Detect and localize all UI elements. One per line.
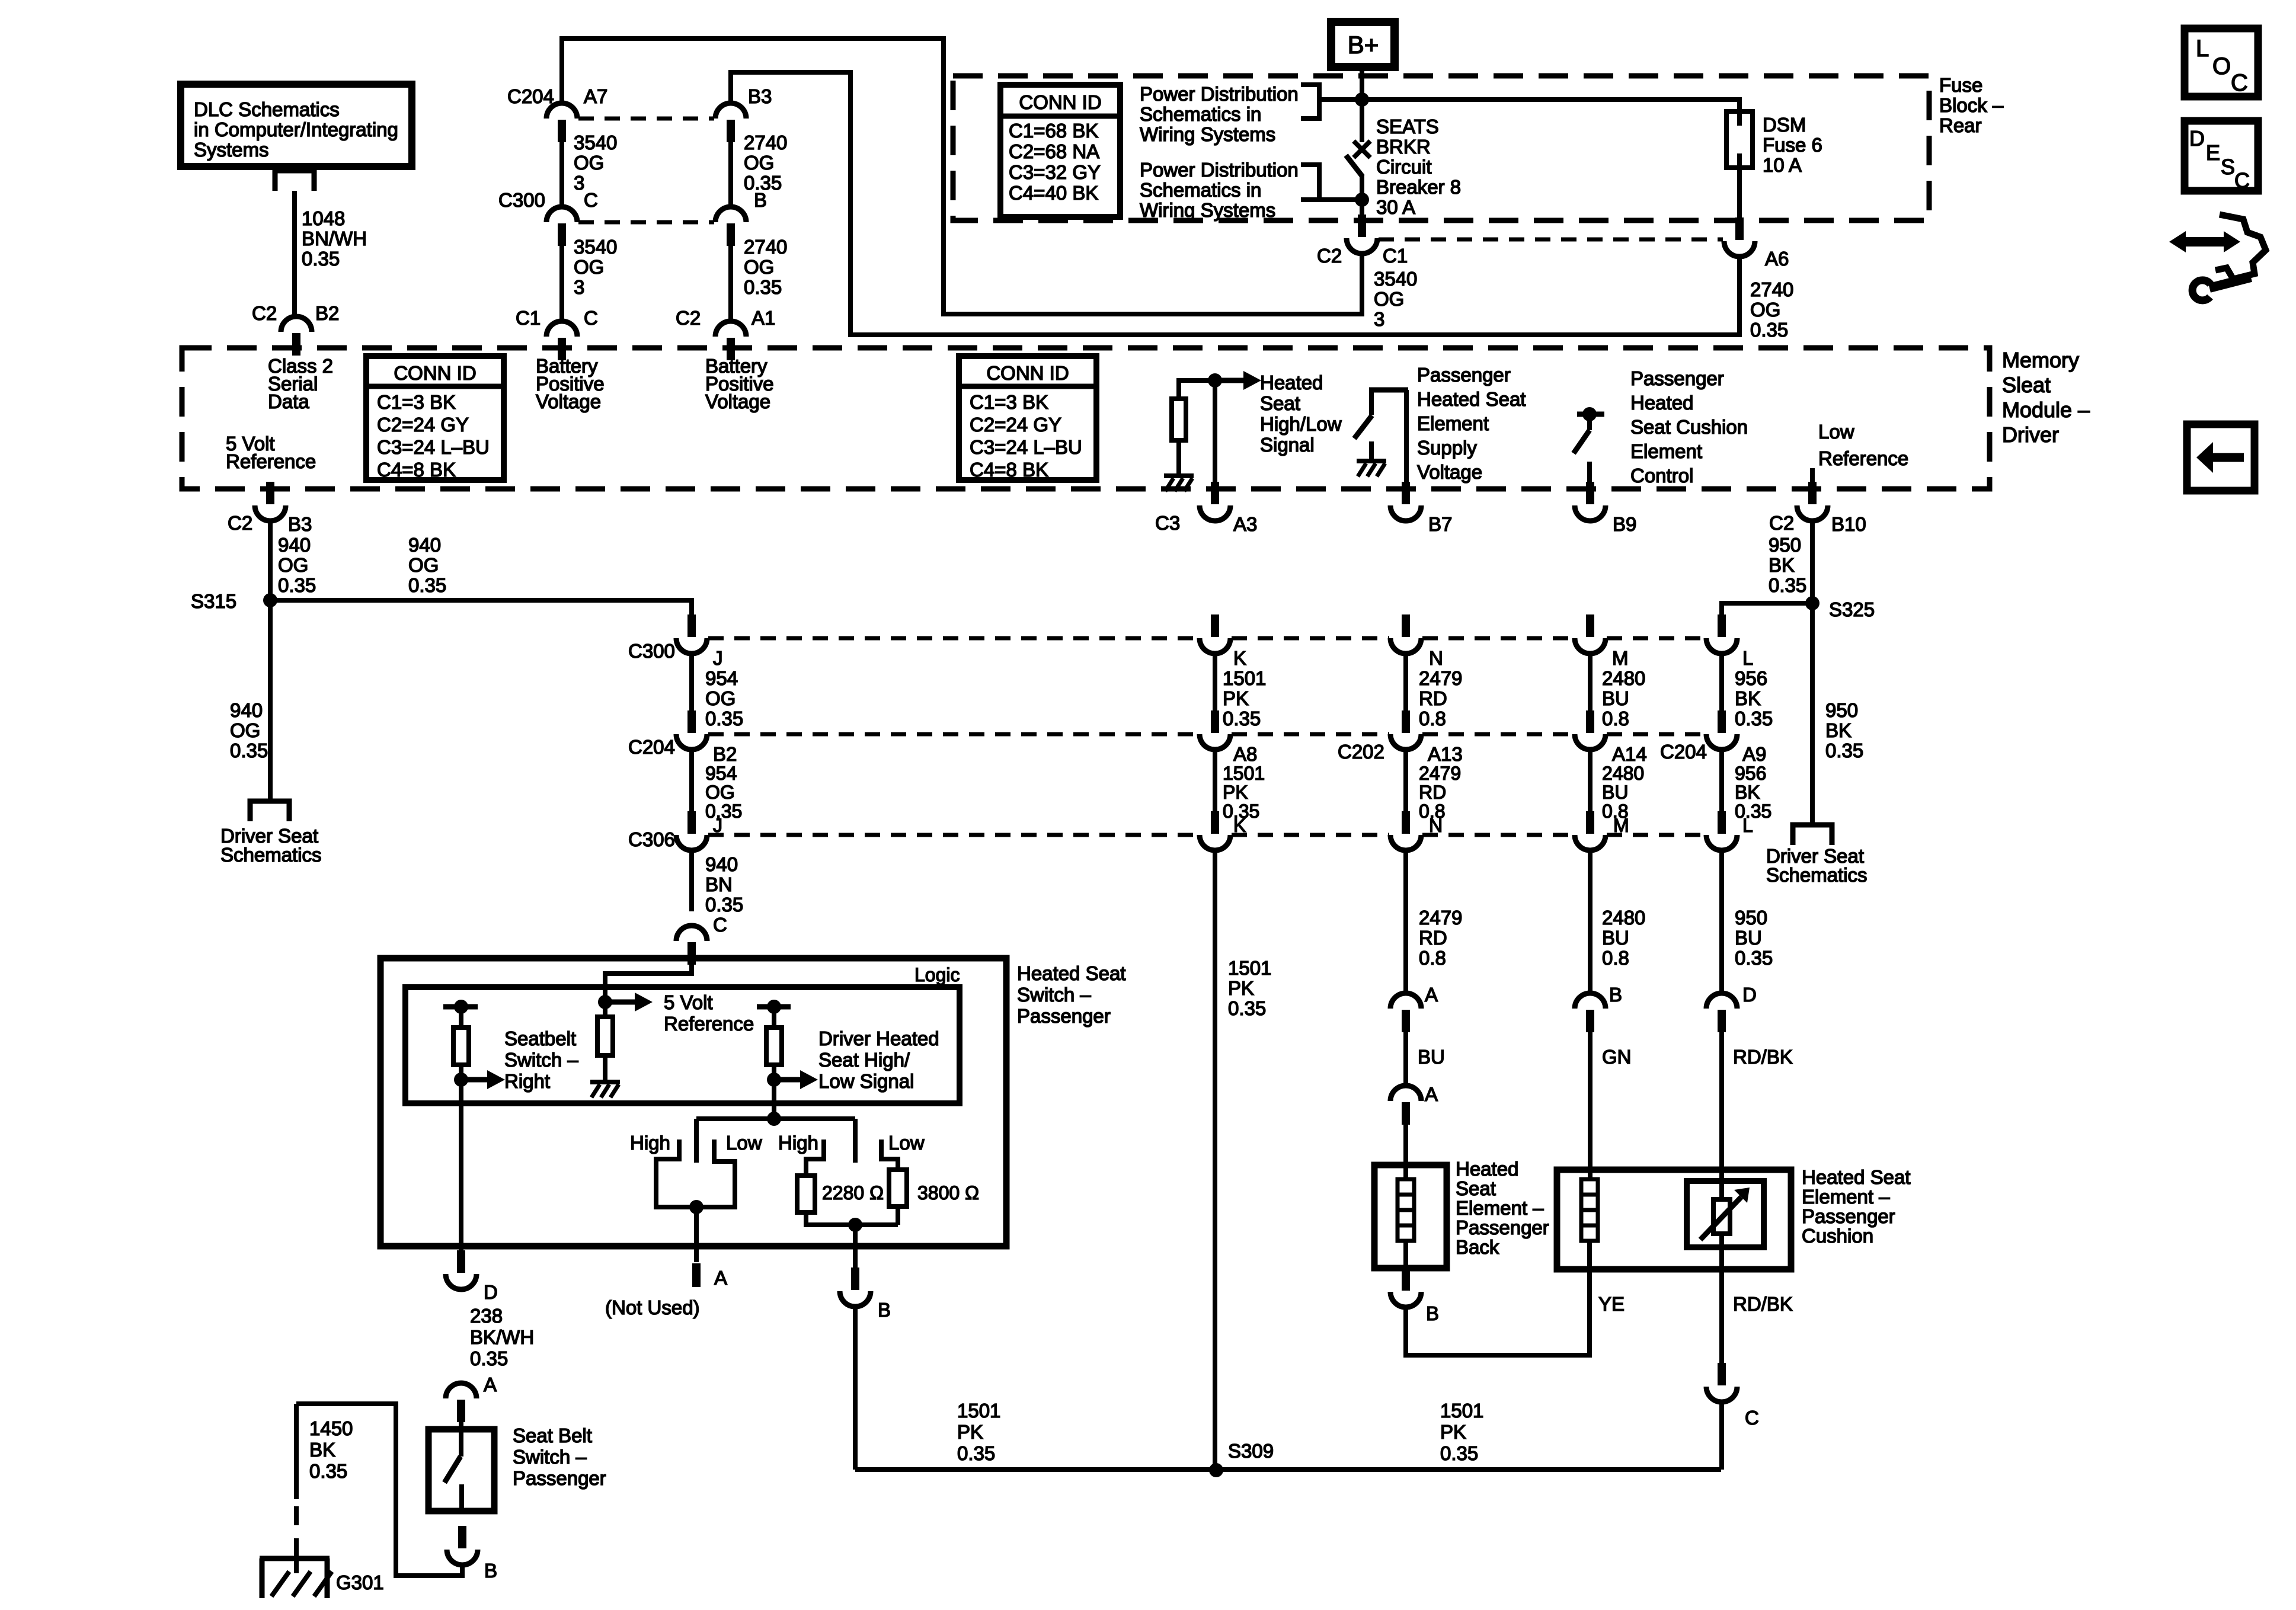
- svg-text:Heated Seat: Heated Seat: [1017, 962, 1125, 984]
- svg-text:Seat Cushion: Seat Cushion: [1630, 416, 1748, 438]
- wire B7 switch to ground: [1369, 441, 1374, 460]
- svg-text:950: 950: [1735, 907, 1767, 929]
- svg-text:2740: 2740: [1750, 279, 1793, 300]
- svg-text:Passenger: Passenger: [1630, 367, 1724, 389]
- dashed tie C300 row: [578, 220, 714, 225]
- svg-text:C3=32 GY: C3=32 GY: [1009, 161, 1101, 183]
- connector A (element): [1390, 1086, 1421, 1101]
- svg-text:Element: Element: [1417, 412, 1489, 434]
- resistor 2280: [797, 1176, 815, 1212]
- node dot driver signal: [767, 1073, 781, 1087]
- svg-text:C3=24 L–BU: C3=24 L–BU: [377, 436, 490, 458]
- wire driver res top: [772, 1007, 776, 1028]
- svg-text:0.35: 0.35: [1735, 947, 1773, 969]
- svg-text:Passenger: Passenger: [513, 1467, 606, 1489]
- svg-text:Back: Back: [1456, 1236, 1499, 1258]
- node dot pair2 out: [848, 1218, 862, 1232]
- connector D (950): [1706, 993, 1737, 1009]
- svg-text:C1=3 BK: C1=3 BK: [970, 391, 1048, 413]
- svg-text:Power Distribution: Power Distribution: [1140, 83, 1299, 105]
- svg-text:OG: OG: [1374, 288, 1404, 310]
- DSM fuse symbol: [1726, 111, 1753, 168]
- svg-text:B9: B9: [1613, 513, 1636, 535]
- svg-text:High: High: [778, 1132, 818, 1154]
- DLC Schematics box: [181, 84, 412, 167]
- node dot B9 internal: [1582, 407, 1597, 421]
- svg-text:1501: 1501: [1223, 667, 1266, 689]
- svg-text:C202: C202: [1338, 741, 1384, 763]
- svg-text:Switch –: Switch –: [1017, 984, 1091, 1006]
- wire 954 OG seg: [689, 654, 694, 710]
- svg-text:C3=24 L–BU: C3=24 L–BU: [970, 436, 1082, 458]
- svg-text:S309: S309: [1228, 1440, 1274, 1462]
- wire 2480 BU seg3: [1588, 850, 1593, 993]
- svg-text:BU: BU: [1602, 687, 1629, 709]
- svg-text:0.8: 0.8: [1602, 708, 1629, 729]
- wire 1501 PK seg2: [1213, 750, 1217, 811]
- svg-text:Passenger: Passenger: [1802, 1205, 1895, 1227]
- svg-text:Reference: Reference: [226, 450, 316, 472]
- junction dot breaker out: [1355, 193, 1369, 207]
- wire C to splice run: [1719, 1402, 1724, 1470]
- svg-text:A6: A6: [1765, 248, 1789, 270]
- wire 2479 RD seg2: [1403, 750, 1408, 811]
- wire seatbelt resistor down: [459, 1065, 463, 1251]
- svg-text:BK: BK: [1735, 687, 1761, 709]
- arrow Heated Seat High/Low Signal: [1220, 378, 1243, 383]
- wire breaker to C2/C1: [1360, 175, 1364, 215]
- service icon wrench: [2209, 277, 2251, 288]
- connector B (2480): [1575, 993, 1606, 1009]
- svg-text:Heated: Heated: [1630, 392, 1693, 414]
- svg-text:2480: 2480: [1602, 763, 1644, 784]
- svg-text:0.35: 0.35: [302, 248, 340, 270]
- svg-text:10 A: 10 A: [1763, 154, 1802, 176]
- svg-text:BRKR: BRKR: [1376, 136, 1431, 158]
- svg-text:C: C: [2234, 168, 2250, 193]
- connector B3 (C204 mate): [715, 103, 746, 119]
- connector C2/C1 below fuse block: [1358, 215, 1366, 237]
- wire thermistor down: [1719, 1234, 1724, 1363]
- circuit breaker X: [1354, 141, 1370, 158]
- connector C300/J: [687, 614, 696, 637]
- svg-text:Low: Low: [1818, 421, 1854, 443]
- wire 1450 BK lower: [294, 1538, 299, 1558]
- dashed row C300: [708, 636, 1705, 641]
- svg-text:Breaker 8: Breaker 8: [1376, 176, 1461, 198]
- svg-text:OG: OG: [744, 152, 774, 174]
- svg-text:BK: BK: [1769, 554, 1795, 576]
- svg-text:RD: RD: [1419, 927, 1447, 949]
- connector A14 (C204 row): [1586, 710, 1594, 733]
- svg-text:Seatbelt: Seatbelt: [504, 1028, 576, 1049]
- svg-text:Block –: Block –: [1939, 94, 2004, 116]
- svg-text:0.35: 0.35: [470, 1347, 508, 1369]
- stub A not used: [692, 1263, 701, 1287]
- element bars (cushion): [1581, 1179, 1598, 1241]
- svg-text:YE: YE: [1598, 1293, 1625, 1315]
- svg-text:Rear: Rear: [1939, 114, 1982, 136]
- svg-text:A14: A14: [1612, 743, 1647, 765]
- svg-text:A3: A3: [1233, 513, 1257, 535]
- svg-text:CONN ID: CONN ID: [986, 362, 1069, 384]
- svg-text:940: 940: [278, 534, 311, 556]
- wiper 2: [853, 1119, 858, 1163]
- svg-text:2740: 2740: [744, 132, 787, 153]
- svg-text:2479: 2479: [1419, 907, 1462, 929]
- Logic inner box: [405, 987, 960, 1103]
- svg-text:D: D: [484, 1281, 498, 1303]
- connector C300/C: [546, 207, 577, 222]
- svg-text:Data: Data: [268, 391, 309, 412]
- svg-text:C1=3 BK: C1=3 BK: [377, 391, 456, 413]
- dashed row C204/C202: [708, 732, 1705, 737]
- connector A (seat belt): [446, 1383, 477, 1398]
- svg-text:C306: C306: [628, 828, 675, 850]
- svg-text:Voltage: Voltage: [1417, 461, 1482, 483]
- selector pair 1 contacts: [656, 1140, 735, 1207]
- connector M (C300 row): [1586, 614, 1594, 637]
- wire RD/BK into thermistor: [1719, 1031, 1724, 1199]
- svg-text:Fuse 6: Fuse 6: [1763, 134, 1822, 156]
- connector B9: [1586, 482, 1594, 504]
- off-page symbol (driver seat right): [1793, 825, 1832, 845]
- svg-text:Seat High/: Seat High/: [818, 1049, 910, 1071]
- svg-text:Seat: Seat: [1456, 1177, 1496, 1199]
- dashed tie C1-A6 row: [1379, 238, 1723, 242]
- svg-text:3: 3: [574, 276, 584, 298]
- LOC icon box: [2185, 28, 2258, 97]
- wire pair1 out to A: [694, 1207, 699, 1262]
- svg-text:Cushion: Cushion: [1802, 1225, 1873, 1247]
- svg-text:0.35: 0.35: [408, 574, 446, 596]
- svg-text:B: B: [878, 1299, 891, 1321]
- thermistor element: [1713, 1199, 1730, 1234]
- svg-text:B2: B2: [315, 302, 339, 324]
- switch B9 stem: [1587, 414, 1592, 430]
- service icon outline: [2215, 215, 2266, 279]
- svg-text:Module –: Module –: [2002, 398, 2090, 422]
- switch B7 fixed contact: [1369, 390, 1374, 415]
- svg-text:B3: B3: [748, 85, 772, 107]
- connector B7: [1402, 482, 1410, 504]
- CONN ID table (fuse block): [1000, 85, 1120, 217]
- svg-text:C1: C1: [1383, 245, 1408, 267]
- svg-text:0.8: 0.8: [1419, 708, 1446, 729]
- svg-text:High: High: [630, 1132, 670, 1154]
- svg-text:B7: B7: [1428, 513, 1452, 535]
- svg-text:Switch –: Switch –: [504, 1049, 578, 1071]
- svg-text:Element –: Element –: [1802, 1186, 1890, 1208]
- node dot A3 internal: [1208, 373, 1222, 388]
- junction dot B+ branch: [1355, 92, 1369, 107]
- wire into element box A: [1403, 1124, 1408, 1179]
- svg-text:RD: RD: [1419, 687, 1447, 709]
- svg-text:BN: BN: [705, 873, 733, 895]
- Memory Seat Module dashed box: [182, 348, 1990, 489]
- svg-text:RD/BK: RD/BK: [1733, 1046, 1793, 1068]
- svg-text:Wiring Systems: Wiring Systems: [1140, 199, 1275, 221]
- svg-text:in Computer/Integrating: in Computer/Integrating: [194, 119, 398, 140]
- svg-text:C2: C2: [252, 302, 277, 324]
- svg-text:Logic: Logic: [914, 964, 960, 985]
- svg-text:B10: B10: [1831, 513, 1866, 535]
- circuit breaker blade: [1346, 155, 1363, 177]
- fuse block dashed box: [953, 76, 1929, 220]
- svg-text:Memory: Memory: [2002, 348, 2079, 372]
- connector C306/J: [687, 811, 696, 834]
- svg-text:Right: Right: [504, 1070, 550, 1092]
- svg-text:OG: OG: [744, 256, 774, 278]
- svg-text:B3: B3: [288, 513, 312, 535]
- svg-text:Sleat: Sleat: [2002, 373, 2051, 397]
- connector C into heated seat switch: [676, 926, 707, 941]
- svg-text:RD: RD: [1419, 782, 1446, 803]
- wire 5V res top: [603, 1002, 607, 1017]
- svg-text:Schematics: Schematics: [1766, 864, 1868, 886]
- svg-text:S315: S315: [191, 590, 236, 612]
- svg-text:30 A: 30 A: [1376, 196, 1415, 218]
- switch B7 top bar: [1369, 388, 1408, 393]
- svg-text:3540: 3540: [574, 132, 617, 153]
- svg-text:A: A: [714, 1267, 727, 1289]
- svg-text:N: N: [1429, 647, 1443, 669]
- svg-text:GN: GN: [1602, 1046, 1632, 1068]
- connector C204/B2: [687, 710, 696, 733]
- svg-text:Passenger: Passenger: [1017, 1005, 1111, 1027]
- svg-text:Low: Low: [726, 1132, 762, 1154]
- svg-text:0.35: 0.35: [309, 1460, 347, 1482]
- wire 1450 BK dashed: [294, 1506, 299, 1525]
- svg-text:C: C: [713, 914, 727, 936]
- node dot seatbelt top: [454, 1000, 468, 1014]
- wire B+ down: [1360, 67, 1364, 142]
- svg-text:Heated: Heated: [1456, 1158, 1518, 1180]
- connector C (RD/BK): [1718, 1363, 1726, 1385]
- arrow Seatbelt Switch Right: [467, 1077, 487, 1083]
- svg-text:A: A: [1425, 984, 1438, 1006]
- svg-text:0.35: 0.35: [705, 708, 743, 729]
- svg-text:C1=68 BK: C1=68 BK: [1009, 120, 1098, 142]
- svg-text:Low: Low: [888, 1132, 925, 1154]
- wire C into logic with jog: [605, 964, 692, 1002]
- node dot pair1 out: [689, 1200, 703, 1214]
- svg-text:BK/WH: BK/WH: [470, 1326, 534, 1348]
- wire 954 OG seg2: [689, 750, 694, 811]
- svg-text:3: 3: [1374, 308, 1384, 330]
- svg-text:BU: BU: [1602, 927, 1629, 949]
- svg-text:O: O: [2212, 53, 2231, 79]
- wire S315 down leg: [268, 600, 273, 801]
- svg-text:C2: C2: [1769, 512, 1794, 534]
- connector C2/B3 (5V ref pin): [266, 482, 274, 504]
- resistor (driver heated): [766, 1028, 782, 1065]
- off-page symbol below DLC box: [275, 171, 314, 191]
- svg-text:S325: S325: [1829, 598, 1875, 620]
- svg-text:L: L: [1742, 647, 1753, 669]
- svg-text:Schematics in: Schematics in: [1140, 179, 1261, 201]
- svg-text:0.35: 0.35: [1769, 574, 1806, 596]
- svg-text:BU: BU: [1735, 927, 1762, 949]
- wire 2280 bottom: [806, 1212, 898, 1225]
- svg-text:Switch –: Switch –: [513, 1446, 587, 1468]
- wire B10 internal: [1810, 468, 1815, 488]
- svg-text:3800 Ω: 3800 Ω: [917, 1182, 979, 1204]
- svg-text:G301: G301: [336, 1571, 384, 1593]
- wire 2480 BU seg1: [1588, 654, 1593, 710]
- switch B9 blade: [1574, 430, 1590, 453]
- wire BU seg: [1403, 1031, 1408, 1086]
- wire B10 to S325: [1810, 521, 1815, 603]
- svg-text:BN/WH: BN/WH: [302, 228, 367, 249]
- splice S325: [1805, 596, 1819, 610]
- svg-text:BK: BK: [1735, 782, 1760, 803]
- connector A6: [1735, 217, 1744, 240]
- svg-text:940: 940: [230, 699, 263, 721]
- svg-text:3: 3: [574, 172, 584, 194]
- wire 950 BU seg3: [1719, 850, 1724, 993]
- wire A into switch box: [459, 1421, 463, 1457]
- wire 940 OG to S315: [268, 521, 273, 600]
- svg-text:OG: OG: [705, 782, 735, 803]
- connector N (C300 row): [1402, 614, 1410, 637]
- wire 3540 seg1: [559, 142, 564, 207]
- svg-text:C4=8 BK: C4=8 BK: [970, 459, 1048, 481]
- svg-text:A1: A1: [752, 307, 775, 329]
- node dot 5V ref: [598, 995, 612, 1009]
- svg-text:956: 956: [1735, 763, 1766, 784]
- selector pair2 low contact: [881, 1140, 898, 1170]
- connector A9 (C204 row): [1718, 710, 1726, 733]
- svg-text:Control: Control: [1630, 465, 1693, 486]
- wire S315 to C300 column: [270, 600, 692, 614]
- svg-text:BU: BU: [1602, 782, 1628, 803]
- svg-text:PK: PK: [1228, 977, 1254, 999]
- connector L (C306 row): [1718, 811, 1726, 834]
- svg-text:Passenger: Passenger: [1456, 1217, 1549, 1238]
- svg-text:C2=24 GY: C2=24 GY: [377, 414, 469, 436]
- svg-text:0.35: 0.35: [1440, 1442, 1478, 1464]
- svg-text:OG: OG: [574, 152, 604, 174]
- svg-text:C4=8 BK: C4=8 BK: [377, 459, 456, 481]
- connector L (C300 row): [1718, 614, 1726, 637]
- Heated Seat Element Passenger Back box: [1374, 1165, 1447, 1268]
- svg-text:Driver Heated: Driver Heated: [818, 1028, 939, 1049]
- svg-text:5 Volt: 5 Volt: [664, 991, 713, 1013]
- wire 3540 top run: [562, 39, 1362, 314]
- svg-text:Element –: Element –: [1456, 1197, 1544, 1219]
- svg-text:OG: OG: [705, 687, 736, 709]
- DESC icon box: [2185, 121, 2258, 191]
- svg-text:Signal: Signal: [1260, 434, 1315, 456]
- wire S325 down leg: [1810, 603, 1815, 825]
- svg-text:0.35: 0.35: [1228, 997, 1266, 1019]
- wire resistor to node: [1179, 380, 1215, 399]
- seat belt switch lower contact: [459, 1484, 464, 1512]
- svg-text:1501: 1501: [1228, 957, 1271, 979]
- wire B9 internal down: [1587, 462, 1592, 488]
- connector B below logic box: [851, 1267, 859, 1290]
- B+ terminal box: [1331, 22, 1395, 67]
- wire element A B to box B: [1406, 1269, 1590, 1355]
- svg-text:B: B: [1609, 984, 1622, 1006]
- connector B (seat belt): [458, 1526, 466, 1548]
- Heated Seat Switch outer box: [380, 958, 1006, 1246]
- svg-text:Heated: Heated: [1260, 372, 1323, 393]
- back arrow icon box: [2187, 424, 2255, 491]
- wire 956 BK seg2: [1719, 750, 1724, 811]
- driver heated input bar: [757, 1004, 791, 1010]
- svg-text:M: M: [1612, 647, 1629, 669]
- selector pair2 high contact: [806, 1140, 824, 1176]
- svg-text:1501: 1501: [957, 1400, 1000, 1422]
- svg-text:Passenger: Passenger: [1417, 364, 1511, 386]
- svg-text:C204: C204: [507, 85, 554, 107]
- svg-text:B: B: [484, 1560, 497, 1582]
- selector feed rail: [696, 1116, 855, 1121]
- svg-text:D: D: [1742, 984, 1757, 1006]
- connector D: [457, 1250, 465, 1273]
- svg-text:C2=68 NA: C2=68 NA: [1009, 140, 1099, 162]
- resistor 3800: [889, 1170, 907, 1206]
- svg-text:C300: C300: [628, 640, 675, 662]
- splice S309: [1209, 1463, 1223, 1477]
- wire 956 BK seg1: [1719, 654, 1724, 710]
- svg-text:238: 238: [470, 1305, 503, 1327]
- ground G301: [260, 1556, 330, 1561]
- svg-text:950: 950: [1769, 534, 1801, 556]
- dashed row C306: [708, 833, 1705, 837]
- svg-text:CONN ID: CONN ID: [394, 362, 476, 384]
- wire 2480 BU seg2: [1588, 750, 1593, 811]
- switch B9 bar: [1577, 412, 1604, 417]
- connector M (C306 row): [1586, 811, 1594, 834]
- seatbelt input bar: [443, 1004, 478, 1010]
- svg-text:BU: BU: [1418, 1046, 1445, 1068]
- connector B below element A: [1402, 1268, 1410, 1291]
- wire 3800 bottom: [896, 1206, 900, 1225]
- svg-text:A8: A8: [1233, 743, 1257, 765]
- svg-text:L: L: [2196, 36, 2209, 62]
- svg-text:3540: 3540: [1374, 268, 1417, 290]
- svg-text:Heated Seat: Heated Seat: [1417, 388, 1526, 410]
- wire seat belt B to ground run: [296, 1404, 462, 1576]
- svg-text:Reference: Reference: [664, 1013, 754, 1035]
- svg-text:0.35: 0.35: [1735, 708, 1773, 729]
- svg-text:Voltage: Voltage: [705, 391, 770, 412]
- ground (module B7): [1357, 459, 1386, 463]
- svg-text:OG: OG: [278, 554, 308, 576]
- svg-text:0.35: 0.35: [1223, 708, 1261, 729]
- wire 2479 RD seg3: [1403, 850, 1408, 993]
- wire 2740 seg2: [728, 246, 733, 321]
- wire 3540 seg2: [559, 246, 564, 321]
- wire fuse to A6: [1737, 168, 1742, 217]
- svg-text:C: C: [1745, 1407, 1759, 1429]
- svg-text:C2=24 GY: C2=24 GY: [970, 414, 1061, 436]
- Seat Belt Switch box: [428, 1429, 494, 1511]
- svg-text:PK: PK: [1440, 1421, 1466, 1443]
- connector A (2479): [1390, 993, 1421, 1009]
- svg-text:Supply: Supply: [1417, 437, 1477, 459]
- svg-text:C2: C2: [1317, 245, 1342, 267]
- svg-text:Seat: Seat: [1260, 392, 1300, 414]
- svg-text:2740: 2740: [744, 236, 787, 258]
- svg-text:2280 Ω: 2280 Ω: [822, 1182, 884, 1204]
- svg-text:Circuit: Circuit: [1376, 156, 1432, 178]
- svg-text:D: D: [2189, 126, 2205, 151]
- svg-text:B+: B+: [1348, 31, 1379, 59]
